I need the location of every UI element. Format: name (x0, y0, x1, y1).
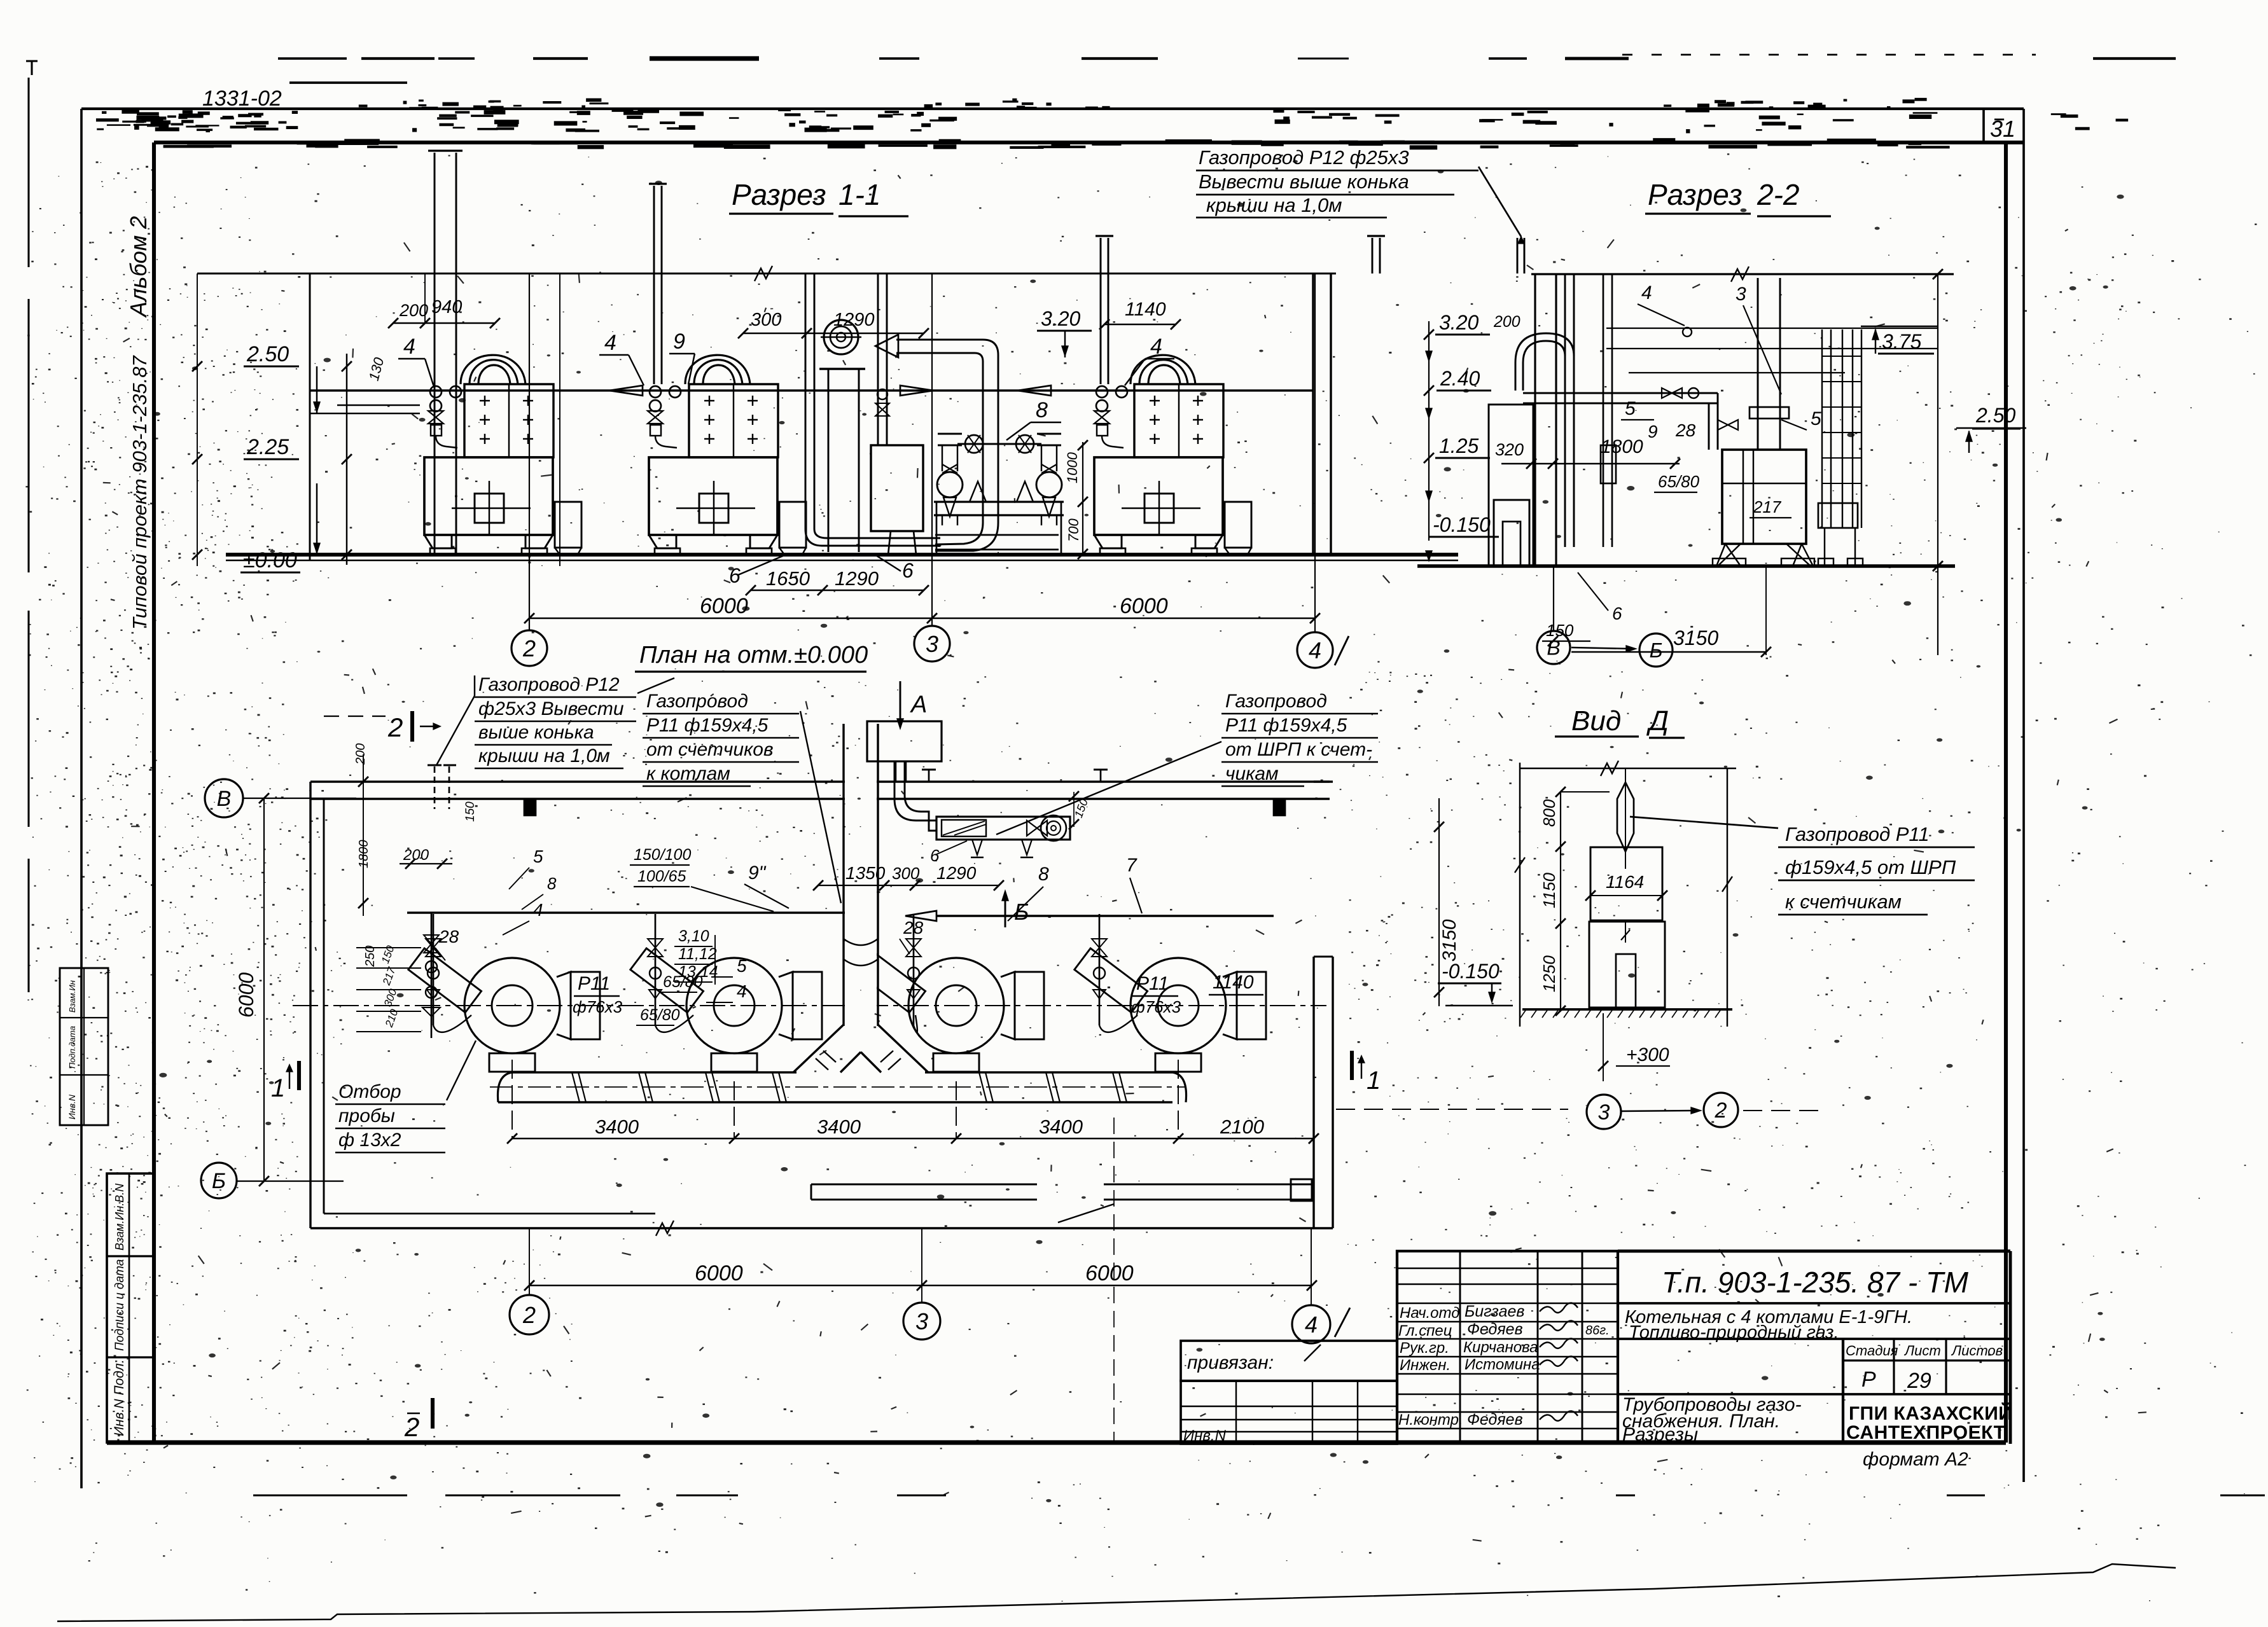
small auxiliary stamp (60, 968, 108, 1125)
svg-text:Инжен.: Инжен. (1400, 1357, 1451, 1374)
svg-text:11,12: 11,12 (678, 945, 717, 963)
svg-text:Федяев: Федяев (1467, 1320, 1523, 1338)
svg-text:4: 4 (737, 981, 747, 1001)
grid bubble 3 (section 1-1) (914, 626, 950, 661)
flue duct centerline (490, 1086, 1185, 1088)
section cut mark 1 (left) (297, 1061, 301, 1090)
svg-text:Кирчанова: Кирчанова (1463, 1339, 1538, 1356)
svg-text:Бигзаев: Бигзаев (1464, 1303, 1524, 1320)
pump unit 2 (1036, 434, 1062, 516)
svg-text:-0.150: -0.150 (1433, 513, 1491, 536)
boiler 1 twin risers (434, 153, 436, 457)
svg-text:крыши на 1,0м: крыши на 1,0м (478, 745, 610, 766)
svg-text:2.25: 2.25 (246, 435, 289, 459)
svg-text:1000: 1000 (1064, 452, 1080, 483)
horizontal flue duct (512, 1071, 1172, 1073)
valve on heater riser (877, 389, 887, 399)
svg-text:САНТЕХПРОЕКТ: САНТЕХПРОЕКТ (1846, 1422, 2006, 1443)
grid bubble В (plan) (205, 779, 243, 817)
title block: signature table (1397, 1251, 1618, 1443)
svg-text:Гл.спец: Гл.спец (1398, 1322, 1452, 1340)
bottom dashed artifact line (253, 1494, 407, 1496)
svg-text:ГПИ КАЗАХСКИЙ: ГПИ КАЗАХСКИЙ (1849, 1402, 2012, 1424)
pump base frame (934, 501, 1064, 502)
view D lower box (1589, 922, 1665, 1007)
svg-text:6: 6 (930, 846, 940, 865)
svg-text:ф25х3 Вывести: ф25х3 Вывести (478, 698, 624, 719)
svg-text:Стадия: Стадия (1846, 1343, 1898, 1359)
roof structure beams (1606, 328, 1938, 329)
section 1-1 grid axis 3 (931, 273, 933, 626)
svg-text:Истомина: Истомина (1464, 1356, 1540, 1373)
svg-text:1350: 1350 (845, 863, 886, 883)
bottom scan edge line (57, 1564, 2176, 1621)
plan roof riser stub at top wall (434, 766, 436, 809)
svg-text:от ШРП к счет-: от ШРП к счет- (1225, 739, 1372, 760)
pump unit 1 (937, 434, 963, 516)
svg-text:чикам: чикам (1225, 763, 1279, 784)
gas valve cluster at x=685 (428, 386, 461, 448)
central flue duct vertical (845, 724, 877, 1026)
section 1-1 right wall (double) (1312, 273, 1314, 555)
svg-text:1164: 1164 (1606, 872, 1644, 892)
svg-text:65/80: 65/80 (640, 1006, 680, 1024)
svg-text:2: 2 (522, 1302, 536, 1328)
svg-text:Р11 ф159х4,5: Р11 ф159х4,5 (646, 715, 769, 736)
svg-text:4: 4 (1305, 1312, 1318, 1338)
plan gas header boilers 1-2 (407, 911, 869, 913)
section 1-1 floor line (226, 553, 1458, 557)
svg-text:В: В (217, 787, 232, 811)
gas header reducer cone 3 (1018, 385, 1051, 396)
plan gas header boilers 3-4 (936, 915, 1274, 917)
view D upper box with 1164 (1590, 847, 1662, 920)
svg-text:200: 200 (1493, 313, 1520, 331)
svg-text:Подписи и дата: Подписи и дата (113, 1259, 127, 1351)
boiler unit (section 1-1) at x=1121 (649, 355, 806, 555)
riser T-marks on top wall (922, 769, 936, 771)
section 1-1 grid axis 2 (529, 273, 530, 630)
svg-text:Разрез: Разрез (1648, 178, 1743, 211)
svg-text:7: 7 (1126, 855, 1137, 876)
right vent stub (1372, 238, 1374, 273)
svg-text:Листов: Листов (1951, 1343, 2003, 1359)
svg-text:План на отм.±0.000: План на отм.±0.000 (639, 642, 868, 668)
svg-text:28: 28 (438, 927, 459, 946)
outer broken left line (27, 78, 29, 267)
plan right wall (double) (1312, 957, 1314, 1228)
svg-text:ф76х3: ф76х3 (1131, 997, 1181, 1016)
section 2-2 boiler body (1722, 450, 1806, 544)
frame left edge (152, 142, 156, 1443)
section 2-2 right stack columns (1821, 329, 1823, 528)
section 2-2 boiler chimney (1757, 278, 1759, 450)
svg-text:Федяев: Федяев (1467, 1411, 1523, 1429)
svg-text:4: 4 (533, 900, 543, 920)
svg-text:6000: 6000 (1120, 594, 1168, 618)
sheet number box 31 (1982, 109, 1985, 142)
section cut mark 2 (top) (324, 716, 386, 717)
svg-text:28: 28 (1675, 420, 1696, 440)
svg-text:1.25: 1.25 (1439, 434, 1478, 457)
svg-text:5: 5 (1811, 408, 1821, 429)
boiler 2 riser (653, 186, 655, 384)
svg-text:6000: 6000 (695, 1261, 743, 1285)
svg-text:3,10: 3,10 (678, 927, 709, 945)
svg-text:3.20: 3.20 (1041, 307, 1080, 330)
view D gas pipe tip (pylon) (1617, 782, 1634, 852)
svg-text:65/80: 65/80 (1658, 472, 1700, 491)
svg-text:5: 5 (1625, 398, 1636, 419)
svg-text:3: 3 (915, 1308, 928, 1334)
left elevation marks section 2-2 (1428, 321, 1430, 541)
svg-text:2.50: 2.50 (1975, 404, 2015, 427)
plan annex walls (811, 1184, 1037, 1186)
svg-text:А: А (910, 691, 927, 718)
plan direction arrow Б (1005, 892, 1006, 927)
title block: right part frame (1618, 1250, 2010, 1253)
svg-text:3: 3 (1736, 284, 1746, 305)
svg-text:6000: 6000 (235, 973, 258, 1018)
svg-text:Б: Б (212, 1169, 226, 1193)
section cut mark 2 (bottom) (431, 1398, 435, 1429)
svg-text:Р11: Р11 (1136, 973, 1169, 994)
svg-text:1140: 1140 (1125, 299, 1166, 320)
svg-text:к счетчикам: к счетчикам (1785, 890, 1902, 913)
roof vent stub pipe (1517, 238, 1519, 273)
svg-text:5: 5 (533, 847, 543, 866)
svg-text:8: 8 (1036, 398, 1048, 422)
svg-text:3: 3 (926, 631, 938, 657)
svg-text:2-2: 2-2 (1757, 178, 1799, 211)
section 2-2 roof line (1531, 273, 1954, 275)
svg-text:150/100: 150/100 (634, 846, 691, 864)
svg-text:от счетчиков: от счетчиков (646, 739, 774, 760)
svg-text:8: 8 (547, 874, 557, 893)
bottom-left vertical stamp column (107, 1174, 154, 1443)
svg-text:6: 6 (1612, 604, 1622, 623)
svg-text:Т.п. 903-1-235. 87 - ТМ: Т.п. 903-1-235. 87 - ТМ (1662, 1266, 1969, 1299)
grid bubble В (section 2-2) (1537, 631, 1570, 664)
svg-text:1650: 1650 (766, 567, 810, 590)
svg-text:ф76х3: ф76х3 (573, 997, 623, 1016)
section 1-1 grid axis 4 (1314, 273, 1316, 632)
boiler burner plan unit at x=1852 (1075, 914, 1266, 1072)
svg-text:200: 200 (399, 301, 428, 320)
view D stem and +300 (1603, 1013, 1604, 1081)
svg-text:Лист: Лист (1903, 1343, 1941, 1359)
svg-text:В: В (1547, 637, 1560, 660)
plan bottom wall (310, 1227, 1333, 1229)
svg-text:29: 29 (1907, 1369, 1931, 1393)
svg-text:1150: 1150 (1540, 873, 1559, 908)
svg-text:Д: Д (1646, 705, 1669, 737)
boiler burner plan unit at x=805 (408, 914, 600, 1072)
svg-text:300: 300 (892, 864, 920, 883)
title block: privyazan box (1181, 1341, 1397, 1381)
view D inner dim line left (1560, 792, 1561, 1011)
gas meters assembly (894, 761, 896, 799)
frame bottom edge (107, 1440, 2006, 1444)
svg-text:1: 1 (271, 1074, 285, 1102)
svg-text:8: 8 (1038, 864, 1049, 885)
grid bubble 4 (plan) (1292, 1305, 1330, 1343)
svg-text:9": 9" (748, 862, 767, 883)
svg-text:Топливо-природный газ.: Топливо-природный газ. (1629, 1322, 1839, 1343)
svg-text:Газопровод: Газопровод (1225, 691, 1327, 712)
svg-text:28: 28 (903, 918, 924, 938)
svg-text:к котлам: к котлам (646, 763, 730, 784)
svg-text:1290: 1290 (835, 567, 879, 590)
svg-text:217: 217 (1753, 497, 1782, 516)
grid bubble Б (plan) (201, 1163, 237, 1198)
svg-text:3: 3 (1598, 1100, 1610, 1125)
pump connecting pipe with ball valves (957, 443, 1041, 445)
section 2-2 mid dims 320 1800 (1501, 463, 1680, 464)
level line 2.50 and branch line at boiler 1 (310, 413, 420, 414)
svg-text:Альбом 2: Альбом 2 (125, 216, 151, 318)
fold mark dashed line (1113, 1118, 1115, 1441)
dashed line right of plan (1336, 1109, 1568, 1110)
svg-text:Р: Р (1861, 1367, 1876, 1392)
svg-text:крыши на 1,0м: крыши на 1,0м (1206, 194, 1342, 216)
dims 6000 6000 under section 1-1 (529, 618, 1315, 619)
gas valve cluster at x=1732 (1094, 386, 1127, 448)
plan top box (867, 721, 942, 761)
view D outer dim line left (1519, 763, 1520, 1027)
svg-text:3400: 3400 (595, 1116, 639, 1138)
fan / smoke exhauster (824, 320, 858, 354)
svg-text:+300: +300 (1626, 1044, 1669, 1065)
svg-text:2: 2 (522, 635, 536, 661)
svg-text:3400: 3400 (817, 1116, 861, 1138)
gas valve cluster at x=1030 (648, 386, 681, 448)
svg-text:800: 800 (1540, 799, 1559, 827)
svg-text:Взам.Ин.В.N: Взам.Ин.В.N (113, 1183, 126, 1250)
view D right line (1727, 768, 1728, 1027)
svg-text:4: 4 (604, 331, 616, 355)
sheet left border (80, 109, 83, 1488)
svg-text:3.75: 3.75 (1882, 330, 1921, 353)
svg-text:Разрез: Разрез (732, 178, 826, 211)
section 2-2 floor (1417, 564, 1955, 567)
plan left dim line 6000 vertical (263, 798, 265, 1181)
direction arrow В-Б (1571, 647, 1632, 649)
svg-text:1331-02: 1331-02 (202, 87, 282, 111)
section 2-2 pedestal (1494, 500, 1529, 566)
svg-text:6000: 6000 (1085, 1261, 1134, 1285)
svg-text:Инв.N: Инв.N (1183, 1427, 1227, 1444)
section 2-2 U loop pipe to burner (1523, 341, 1565, 391)
svg-text:3.20: 3.20 (1439, 311, 1478, 334)
section 2-2 tall column left (1489, 405, 1533, 566)
plan top wall (double) (310, 780, 1330, 782)
middle tall pipes (805, 273, 807, 529)
title block: left lower grid (1181, 1381, 1397, 1444)
svg-text:Инв.N Подл.: Инв.N Подл. (112, 1359, 127, 1436)
svg-text:6000: 6000 (700, 594, 748, 618)
boiler burner plan unit at x=1154 (630, 914, 822, 1072)
svg-text:1800: 1800 (357, 840, 371, 869)
svg-text:9: 9 (1648, 422, 1658, 441)
svg-text:200: 200 (403, 847, 429, 864)
svg-text:4: 4 (1150, 335, 1162, 359)
svg-text:86г.: 86г. (1585, 1324, 1610, 1338)
svg-text:2100: 2100 (1220, 1116, 1264, 1138)
gas header reducer cone 2 (900, 385, 933, 396)
svg-text:3150: 3150 (1439, 919, 1460, 962)
svg-text:2.50: 2.50 (246, 342, 289, 366)
svg-text:выше конька: выше конька (478, 722, 594, 743)
view D top line (1520, 768, 1736, 769)
boiler unit (section 1-1) at x=768 (424, 355, 581, 555)
section 1-1 outer dim vertical (197, 273, 198, 566)
svg-text:4: 4 (1309, 637, 1321, 663)
svg-text:Н.контр.: Н.контр. (1398, 1411, 1463, 1429)
view D direction arrow 3-2 (1621, 1111, 1697, 1111)
section 2-2 right dim vertical (1937, 274, 1938, 655)
svg-text:Газопровод Р11: Газопровод Р11 (1785, 823, 1930, 845)
svg-text:300: 300 (751, 310, 781, 330)
plan bottom dim row 3400 3400 3400 2100 (512, 1138, 1314, 1139)
svg-text:2: 2 (404, 1412, 419, 1442)
flue Y branch (793, 1025, 928, 1072)
svg-text:Вид: Вид (1571, 705, 1621, 737)
svg-text:формат А2: формат А2 (1863, 1449, 1968, 1470)
grid bubble Б (section 2-2) (1639, 633, 1673, 667)
random hair strokes (103, 175, 2146, 1540)
svg-text:3150: 3150 (1673, 627, 1718, 649)
section 2-2 gas valves on run (1662, 388, 1682, 398)
svg-text:Р11 ф159х4,5: Р11 ф159х4,5 (1225, 715, 1347, 736)
svg-text:Вывести выше конька: Вывести выше конька (1199, 170, 1409, 193)
svg-text:1250: 1250 (1540, 955, 1559, 992)
svg-text:2.40: 2.40 (1440, 367, 1480, 390)
svg-text:±0.00: ±0.00 (243, 548, 297, 572)
upper gas loop pipe (896, 339, 983, 341)
larger dirt blobs (154, 160, 2124, 1507)
plan left wall (double) (309, 782, 311, 1228)
grid bubble 2 (plan) (510, 1295, 549, 1334)
svg-text:Подп.дата: Подп.дата (67, 1026, 77, 1069)
section 2-2 riser pipes (1564, 274, 1566, 547)
plan sample take-off assembly (431, 913, 433, 1038)
leader to roof stub (1478, 167, 1521, 237)
right dim ladder 1000 700 (1082, 442, 1083, 554)
svg-text:4: 4 (1641, 282, 1652, 303)
top scan smear band (278, 57, 347, 60)
svg-text:9: 9 (673, 329, 685, 354)
svg-text:2: 2 (387, 712, 403, 742)
top sheet line (81, 107, 2024, 110)
svg-text:Отбор: Отбор (338, 1081, 401, 1102)
section 2-2 boiler feet braces (1716, 544, 1741, 566)
frame right edge (double) (2004, 142, 2008, 1443)
svg-text:250: 250 (363, 946, 377, 967)
section 2-2 left wall (double) (1534, 274, 1536, 566)
gas header line section 1-1 (310, 389, 1313, 391)
svg-text:4: 4 (403, 335, 415, 359)
svg-text:1-1: 1-1 (838, 178, 880, 211)
svg-text:100/65: 100/65 (637, 868, 686, 885)
section 2-2 horizontal gas run (1523, 392, 1718, 394)
view D grid bubble 2 (1704, 1093, 1738, 1127)
grid bubble 4 (section 1-1) (1297, 632, 1333, 668)
section 2-2 gas pipe vertical mid (1603, 274, 1604, 547)
svg-text:700: 700 (1066, 518, 1082, 542)
view D ground line with hatch (1522, 1008, 1732, 1011)
svg-text:Газопровод Р12: Газопровод Р12 (478, 674, 620, 695)
svg-text:привязан:: привязан: (1187, 1352, 1274, 1373)
svg-text:Нач.отд: Нач.отд (1400, 1305, 1460, 1322)
svg-text:Инв.N: Инв.N (67, 1094, 77, 1119)
svg-text:-0.150: -0.150 (1442, 960, 1499, 983)
funnel drains on frame (970, 481, 1033, 502)
svg-text:Б: Б (1650, 639, 1663, 662)
svg-text:пробы: пробы (338, 1105, 395, 1126)
plan burner centerline (dash-dot) (293, 1005, 1326, 1006)
svg-text:2: 2 (1715, 1098, 1727, 1123)
svg-text:Газопровод Р12 ф25х3: Газопровод Р12 ф25х3 (1199, 146, 1409, 169)
boiler burner plan unit at x=1503 (852, 914, 1044, 1072)
annex diagonal door line (1058, 1204, 1114, 1222)
svg-text:940: 940 (431, 297, 462, 317)
svg-text:ф 13х2: ф 13х2 (338, 1130, 401, 1151)
svg-text:5: 5 (737, 956, 747, 976)
svg-text:Рук.гр.: Рук.гр. (1400, 1340, 1449, 1357)
grid bubble 2 (section 1-1) (511, 630, 547, 666)
grid bubble 3 (plan) (903, 1303, 940, 1340)
svg-text:13,14: 13,14 (678, 963, 718, 981)
svg-text:150: 150 (464, 801, 477, 822)
svg-text:3400: 3400 (1039, 1116, 1083, 1138)
boiler unit (section 1-1) at x=1821 (1094, 355, 1251, 555)
water heater vessel (877, 273, 879, 445)
plan wall piers (524, 799, 536, 815)
boiler 4 riser (1100, 238, 1102, 384)
section 1-1 left wall line (309, 273, 311, 560)
plan direction arrow А (900, 681, 901, 725)
svg-text:Газопровод: Газопровод (646, 691, 748, 712)
svg-text:1290: 1290 (833, 310, 875, 330)
gas header reducer cone 1 (609, 385, 643, 396)
svg-text:320: 320 (1495, 440, 1524, 459)
svg-text:ф159х4,5 от ШРП: ф159х4,5 от ШРП (1785, 856, 1956, 878)
svg-text:200: 200 (354, 744, 368, 765)
section 1-1 ceiling line (197, 273, 1336, 275)
frame top edge (154, 141, 2024, 144)
plan bottom dim row 6000 6000 (529, 1285, 1312, 1286)
signatures scribbles (1540, 1303, 1578, 1312)
svg-text:Разрезы: Разрезы (1622, 1424, 1698, 1445)
svg-text:31: 31 (1990, 116, 2015, 142)
svg-text:1290: 1290 (936, 863, 977, 883)
svg-text:6: 6 (902, 559, 914, 582)
dim line vertical at 940 (559, 273, 560, 566)
right elevation marks section 2-2 (1861, 326, 1938, 327)
svg-text:Взам.Ин: Взам.Ин (67, 980, 77, 1013)
svg-text:1: 1 (1367, 1067, 1381, 1095)
view D grid bubble 3 (1587, 1095, 1621, 1129)
svg-text:Р11: Р11 (578, 973, 610, 994)
dims 1650 / 1290 under floor (751, 590, 924, 591)
svg-text:1800: 1800 (1601, 436, 1643, 457)
section cut mark 1 (right) (1350, 1051, 1354, 1080)
svg-text:1140: 1140 (1213, 972, 1254, 993)
pipes under frame to floor (942, 515, 1057, 525)
